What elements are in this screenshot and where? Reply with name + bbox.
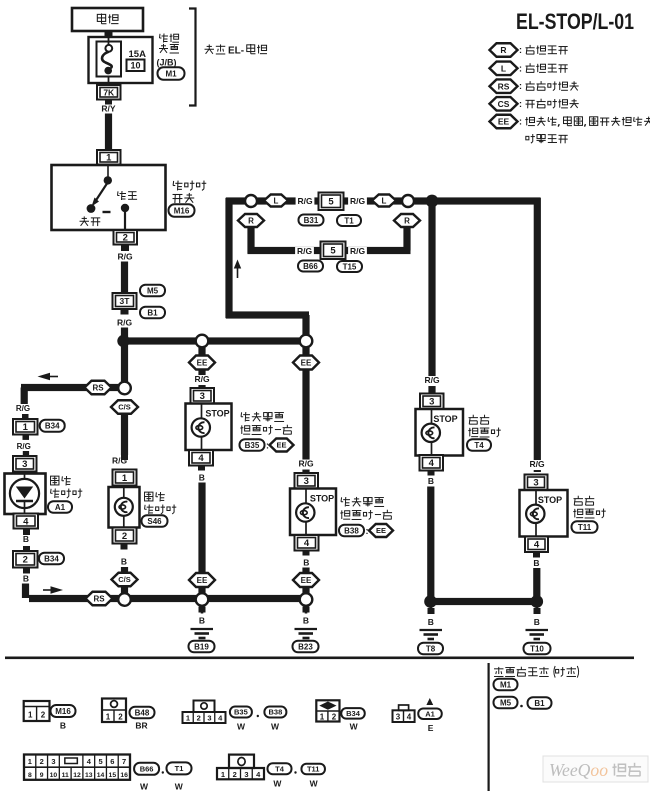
badge EE [189,356,215,370]
high-mount lamp label [51,476,71,485]
connector T15 oval [337,261,362,272]
svg-text:10: 10 [50,772,58,779]
svg-text:1: 1 [28,757,32,766]
svg-text:T11: T11 [578,523,592,532]
connector B38 oval with EE [339,525,364,537]
svg-text:2: 2 [197,714,201,723]
svg-text:10: 10 [130,61,140,71]
svg-text:1: 1 [320,713,325,722]
wire right rear lamp to ground bus [533,568,540,602]
ground bus wire 2 [131,595,197,602]
ground bus node right [300,593,313,606]
wire label R/G [121,245,129,251]
wire label R/G [193,375,212,385]
wire RS branch left [21,384,119,391]
connector 1 (B34) [13,419,38,435]
svg-text:R/G: R/G [297,196,313,206]
svg-text:3: 3 [207,714,211,723]
pinout M16 connector [24,701,50,721]
ground bus node left [118,593,131,606]
ground bus wire [431,598,537,605]
svg-text:1: 1 [106,153,112,164]
svg-text:R/G: R/G [297,246,313,256]
wire 3T to junction [121,328,128,342]
connector M5 oval [140,285,165,297]
svg-text:B: B [23,534,29,544]
badge EE right [293,356,319,370]
svg-text:3: 3 [396,713,401,722]
svg-text:1: 1 [23,422,29,433]
pinout B48 connector [102,699,126,723]
svg-text:T10: T10 [530,644,544,653]
svg-text:B34: B34 [45,422,60,431]
wire left rear lamp to ground bus [427,487,434,602]
ground bus wire 1 [29,595,119,602]
trunk lamp right label [341,497,384,507]
svg-text:WeeQoo: WeeQoo [549,760,608,780]
svg-text:R/G: R/G [16,404,30,413]
left rear lamp label [469,415,490,425]
svg-text:B: B [428,617,434,627]
reference bracket [189,9,196,106]
wire down to ground bus [22,584,29,599]
ground bus junction left [424,595,437,608]
svg-text:M5: M5 [147,286,159,295]
svg-text:M16: M16 [174,206,190,215]
legend badge EE [490,115,518,129]
ground T10 [535,606,538,614]
badge L left [264,195,288,207]
wire label R/G [348,247,367,257]
svg-text:B: B [533,558,539,568]
connector 3 of right rear lamp [525,475,548,491]
label pressed [118,191,138,200]
svg-text:EE: EE [197,576,208,585]
svg-text:B38: B38 [269,708,283,717]
svg-text:C/S: C/S [118,575,131,584]
bus wire to trunk-right branch [208,337,301,344]
svg-text:W: W [140,782,149,791]
svg-text:14: 14 [97,772,105,779]
connector T1 oval [337,215,361,226]
svg-text:B: B [199,616,205,626]
svg-text:4: 4 [534,540,540,551]
badge EE lower right [293,573,319,587]
svg-text:L: L [382,196,387,205]
svg-text:3: 3 [533,478,538,489]
wire EE branch right trunk lamp [302,348,309,474]
svg-text:S46: S46 [147,517,162,526]
svg-text:B: B [121,557,127,567]
svg-text:4: 4 [198,453,204,464]
connector 3T [113,293,137,309]
svg-text:4: 4 [256,770,261,779]
ground bus junction right [531,595,544,608]
connector 2 of brake switch [114,230,138,245]
svg-text:5: 5 [330,246,336,257]
svg-text:STOP: STOP [205,409,229,419]
note see EL-POWER [205,44,226,54]
node open circle RS/CS [118,382,131,395]
svg-text:4: 4 [87,757,92,766]
svg-text:2: 2 [233,770,237,779]
svg-text:R: R [500,45,506,55]
svg-text:B34: B34 [346,709,361,718]
svg-text:E: E [428,723,434,733]
high-mount stop lamp S46 [109,487,140,528]
svg-text:STOP: STOP [310,494,334,504]
svg-text:(J/B): (J/B) [157,58,177,68]
svg-text:4: 4 [304,538,310,549]
connector T10 oval [524,643,551,655]
wire label R/G [295,247,314,257]
svg-text:W: W [350,722,359,732]
S46 lamp label [145,492,165,501]
svg-text:B66: B66 [303,262,318,271]
wire junction down to CS node [121,341,128,382]
wire 7K to brake switch [105,114,112,152]
svg-text:4: 4 [23,516,29,527]
node open circle trunk-left [196,335,209,348]
svg-text:STOP: STOP [538,495,562,505]
fuse slot 10 [127,60,145,72]
connector 3 of left rear lamp [420,394,444,410]
pinout B66/T1 16-pin connector [24,755,130,780]
svg-text:B: B [60,721,66,731]
pinout A1 connector [399,705,409,710]
svg-text:B: B [303,616,309,626]
connector B66 oval [298,261,323,272]
connector M5 oval footnote [494,697,518,709]
connector T8 oval [418,643,443,655]
wire label B [303,551,310,556]
wire label R/G [348,197,367,207]
svg-text:EE: EE [301,358,312,367]
svg-text:3: 3 [51,757,55,766]
fuse 15A [105,45,112,52]
connector 2 (B34) [13,551,38,568]
svg-text:A1: A1 [425,709,435,718]
svg-text:15: 15 [109,772,117,779]
wire trunk lamp right to ground [302,568,309,595]
connector M16 oval [169,204,195,217]
trunk lamp left label [241,412,284,422]
wire label B [533,553,540,558]
svg-text:R/G: R/G [350,196,366,206]
svg-text:4: 4 [218,714,223,723]
left rear combination lamp T4 [416,409,464,456]
svg-text:STOP: STOP [433,414,457,424]
connector 4 of left rear lamp [420,455,444,471]
svg-text:EL-: EL- [228,46,244,57]
svg-text:7K: 7K [103,87,115,97]
svg-text:12: 12 [73,772,81,779]
svg-text:B34: B34 [44,554,59,563]
svg-text::: : [519,81,522,91]
wire EE branch left trunk lamp [198,348,205,389]
svg-text:R/G: R/G [194,374,210,384]
svg-text:EE: EE [197,358,208,367]
svg-text:EE: EE [276,441,286,450]
connector A1 oval [48,501,72,513]
svg-text:EE: EE [301,576,312,585]
wire trunk lamp left to ground [198,483,205,595]
svg-text:EL-STOP/L-01: EL-STOP/L-01 [516,9,634,34]
svg-text:3: 3 [200,391,205,402]
connector B34 oval [39,553,64,565]
wire battery to fuse box [105,30,113,38]
svg-text:B: B [23,574,29,584]
wire label R/G [121,310,129,315]
badge L right [372,195,396,207]
loop lower row wires [247,227,254,254]
connector M1 oval footnote [494,679,518,691]
battery [72,8,143,31]
connector B23 oval [293,641,319,653]
svg-text:T1: T1 [175,764,184,773]
connector 4 of right rear lamp [525,537,548,553]
connector 5 upper (B31-T1) [319,193,344,211]
connector 4 of trunk lamp left [189,450,213,466]
connector 1 of brake switch [97,150,121,165]
junction node [117,335,129,347]
wire label B [199,607,206,613]
svg-text:M5: M5 [500,698,512,707]
svg-text:B35: B35 [245,441,260,450]
svg-text::: : [519,117,522,127]
node open circle left [245,195,257,207]
legend badge CS [490,97,518,111]
wire to connector 5 upper [257,197,403,204]
wire label B [428,471,435,476]
wire to bus junction [414,197,427,204]
svg-text::: : [519,63,522,73]
label released [80,216,101,226]
bus wire to right [432,197,541,204]
svg-text:B: B [534,617,540,627]
svg-text:B1: B1 [534,699,545,708]
svg-text:4: 4 [407,713,412,722]
connector 1 of high-mount lamp S46 [113,470,137,486]
connector 4 of high-mount lamp [14,514,39,529]
svg-text:T4: T4 [474,441,484,450]
ground bus wire 3 [208,595,300,602]
svg-text:11: 11 [62,772,69,779]
connector T4 oval [467,439,491,451]
svg-text:W: W [237,722,246,732]
svg-text:B48: B48 [135,708,150,717]
wire CS to lamp [121,414,128,455]
trunk lid combination lamp right B38 [290,489,336,536]
svg-text:15A: 15A [129,49,147,60]
svg-text:6: 6 [110,757,114,766]
wire label B [428,608,435,614]
svg-text:8: 8 [28,772,32,779]
svg-text:RS: RS [92,383,104,392]
svg-text:3: 3 [429,397,434,408]
bus junction node filled [426,195,439,208]
svg-text:3: 3 [22,459,27,470]
svg-text:2: 2 [41,711,46,720]
svg-text:R/G: R/G [117,252,133,262]
svg-text:16: 16 [120,772,128,779]
connector B1 oval footnote [528,697,552,709]
svg-text:BR: BR [135,721,147,731]
svg-text:R/Y: R/Y [101,104,116,114]
svg-text:M16: M16 [55,707,71,716]
svg-text:2: 2 [123,233,128,244]
connector T11 oval [572,521,598,533]
connector 3 of trunk lamp left [191,388,215,404]
svg-text:W: W [271,722,280,732]
badge CS upper [111,400,138,414]
svg-text:5: 5 [98,757,102,766]
brake light switch M16 [52,165,166,230]
svg-text:2: 2 [332,713,337,722]
connector 3 of trunk lamp right [295,473,319,489]
node open circle right [402,195,414,207]
connector 4 of trunk lamp right [295,535,319,551]
svg-text:2: 2 [122,531,127,542]
svg-text:R: R [248,216,254,225]
direction arrow up [237,266,239,278]
svg-text:B: B [303,558,309,568]
svg-text:4: 4 [429,458,435,469]
svg-text:L: L [501,63,506,73]
svg-text:EE: EE [498,117,510,127]
legend EE text line 2 [526,134,568,143]
svg-text:EE: EE [376,526,386,535]
trunk lid combination lamp left B35 [186,404,232,451]
wire label R/G [423,376,442,386]
connector 7K [108,77,110,85]
connector 2 of S46 [113,528,137,544]
svg-text:1: 1 [186,714,190,723]
svg-text:R/G: R/G [298,459,314,469]
connector B34 oval [40,420,65,432]
svg-text::: : [519,99,522,109]
svg-text:3: 3 [304,476,309,487]
svg-text:T1: T1 [344,216,354,225]
svg-text:B1: B1 [147,308,158,317]
connector 3 of high-mount lamp [13,456,37,472]
connector B1 oval [140,307,165,319]
brake switch label [173,181,206,191]
svg-text:B19: B19 [194,642,209,651]
svg-text:1: 1 [106,713,111,722]
legend badge L [490,62,518,76]
svg-text:1: 1 [221,770,225,779]
ground T8 [429,606,432,614]
svg-text:RS: RS [93,594,105,603]
svg-text:3T: 3T [120,296,131,306]
svg-text:B: B [428,476,434,486]
svg-text:B38: B38 [344,526,359,535]
svg-text:T8: T8 [426,644,436,653]
wire label B [198,466,205,471]
high-mount stop lamp A1 (LED) [5,474,46,515]
svg-text:M1: M1 [500,680,512,689]
svg-text:2: 2 [40,757,44,766]
svg-text:2: 2 [118,713,123,722]
badge R right [394,214,420,227]
svg-text:B31: B31 [304,216,319,225]
svg-text::: : [519,45,522,55]
wire label R/Y [105,100,112,105]
wire switch to 3T [121,262,128,294]
loop top wire left segment [225,198,232,318]
wire down to right rear lamp [534,198,541,472]
svg-text:13: 13 [85,772,93,779]
svg-text:R/G: R/G [424,375,440,385]
svg-text:1: 1 [28,711,33,720]
svg-text:W: W [273,779,282,789]
svg-text:2: 2 [23,555,28,566]
fuse box label [160,34,180,43]
svg-text:R/G: R/G [350,246,366,256]
pinout B35/B38 connector [194,701,215,713]
direction arrow right [43,589,51,591]
right rear combination lamp T11 [520,490,568,537]
legend badge R [490,43,518,57]
badge RS [85,381,112,395]
pinout T4/T11 connector [229,755,254,768]
connector 5 lower (B66-T15) [321,242,346,260]
svg-text:W: W [310,779,319,789]
wire label R/G [297,460,316,470]
svg-text:CS: CS [498,99,510,109]
svg-text:5: 5 [328,197,334,208]
svg-text:M1: M1 [165,69,177,78]
svg-text:T4: T4 [275,764,285,773]
svg-text:R/G: R/G [17,442,31,451]
badge CS lower [112,573,138,587]
svg-text:1: 1 [122,473,128,484]
wire label B [534,608,541,614]
svg-text:9: 9 [40,772,44,779]
wire label B [303,607,310,613]
ground B19 [201,606,204,614]
ground B23 [305,606,308,614]
svg-text:W: W [175,782,184,791]
connector B35 oval with EE [240,439,265,451]
svg-text:3: 3 [244,770,248,779]
direction arrow left [50,376,58,378]
svg-text:R/G: R/G [117,318,133,328]
badge R left [238,214,264,227]
pinout B34 connector [316,700,339,721]
svg-text:A1: A1 [55,503,66,512]
legend badge RS [490,79,518,93]
svg-text:B66: B66 [140,765,154,774]
svg-text:R/G: R/G [529,459,545,469]
svg-text:R: R [404,216,410,225]
footnote see last page [494,666,579,678]
node open circle trunk-right [300,335,313,348]
svg-text:B35: B35 [234,708,248,717]
svg-text:7: 7 [122,757,126,766]
connector B31 oval [299,215,324,226]
footnote divider [488,663,490,791]
bus wire to trunk-left branch [124,337,197,344]
badge RS on ground bus [86,592,113,606]
svg-text:T15: T15 [343,262,357,271]
loop bottom corner wires [226,311,309,318]
svg-text:RS: RS [498,81,510,91]
wire down to left rear lamp [428,201,435,393]
svg-text:B23: B23 [298,642,313,651]
svg-text:B: B [199,473,205,483]
